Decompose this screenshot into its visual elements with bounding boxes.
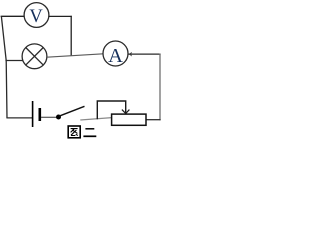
lamp L (22, 44, 47, 69)
wire right drop to lamp node (70, 16, 72, 56)
switch S (56, 106, 85, 119)
battery (33, 101, 40, 127)
svg-text:V: V (29, 7, 43, 27)
wire ammeter right (128, 53, 161, 55)
voltmeter V (24, 3, 49, 28)
wire right bus (159, 54, 161, 121)
wire lamp to ammeter (47, 54, 103, 57)
label tu (figure) character (68, 126, 80, 138)
ammeter A (103, 41, 128, 67)
wire V right (49, 15, 72, 17)
wire slider loop (97, 101, 125, 119)
wire battery left (6, 117, 32, 119)
wire switch to rheostat (80, 118, 112, 120)
wire battery to switch (41, 116, 57, 118)
wire rheostat right (146, 119, 161, 121)
label er (two) character (83, 129, 96, 137)
rheostat R body (112, 114, 146, 125)
svg-text:A: A (108, 45, 123, 67)
wire left bus (1, 17, 7, 118)
junction arrowhead at ammeter (129, 52, 133, 57)
wire V left (1, 15, 25, 17)
wire lamp left (5, 60, 23, 62)
rheostat slider arrow (122, 110, 129, 114)
